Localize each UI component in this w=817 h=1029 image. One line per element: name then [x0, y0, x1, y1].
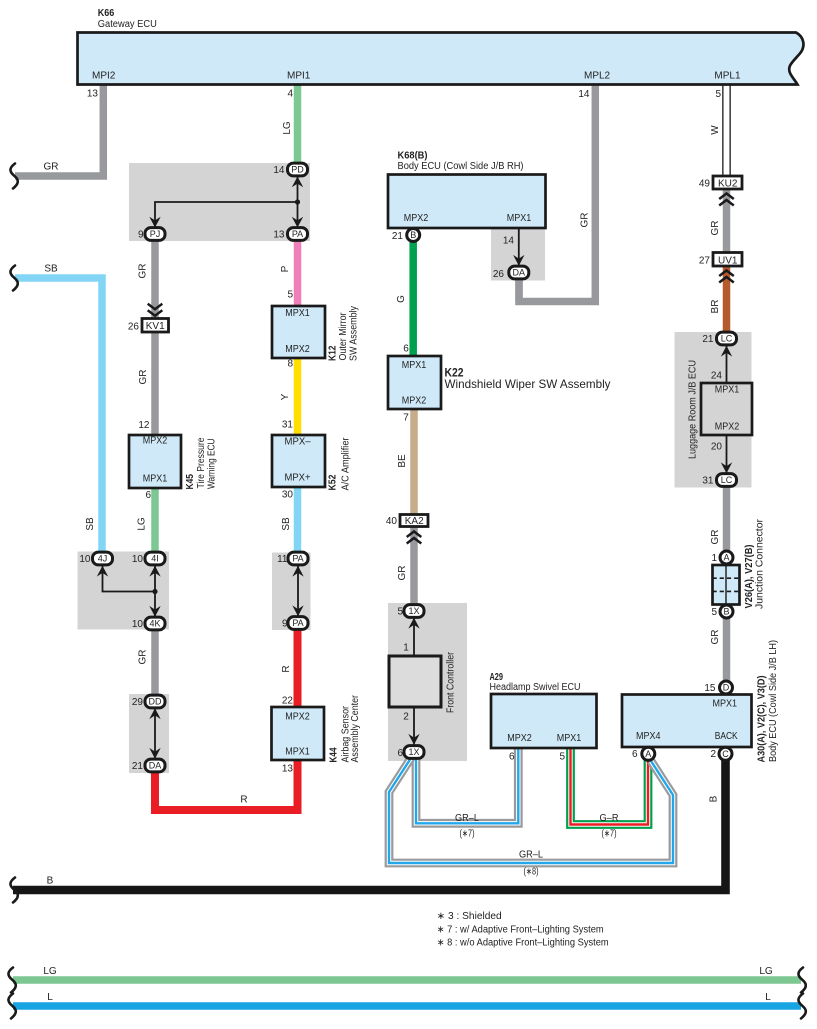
- svg-text:2: 2: [403, 712, 409, 723]
- svg-text:31: 31: [702, 476, 714, 487]
- svg-text:KV1: KV1: [146, 321, 165, 332]
- svg-text:20: 20: [711, 442, 723, 453]
- svg-text:(∗7): (∗7): [460, 829, 475, 840]
- ECU K44 Airbag Sensor Assembly Center box: [272, 707, 325, 760]
- svg-text:11: 11: [277, 554, 288, 565]
- bottom wire LG full width: [13, 976, 801, 984]
- svg-text:∗ 3 : Shielded: ∗ 3 : Shielded: [437, 911, 502, 922]
- svg-text:GR: GR: [44, 162, 59, 173]
- oval connector 26 DA: [509, 266, 529, 279]
- svg-text:A/C Amplifier: A/C Amplifier: [341, 437, 352, 491]
- svg-text:40: 40: [386, 516, 398, 527]
- svg-text:1X: 1X: [408, 606, 419, 616]
- wire P from PA to K12 pin5: [294, 240, 302, 307]
- circle connector 15 D: [720, 681, 733, 694]
- connector box UV1: [713, 253, 742, 267]
- break squiggle SB left: [10, 266, 17, 291]
- oval connector 14 PD: [288, 163, 308, 176]
- svg-text:UV1: UV1: [718, 255, 738, 266]
- wire GR 31LC to A circle: [723, 486, 731, 552]
- svg-text:B: B: [723, 607, 729, 617]
- svg-text:R: R: [240, 795, 247, 806]
- oval connector 13 PA: [288, 228, 308, 241]
- junction dot at 4I link: [152, 589, 157, 594]
- svg-text:∗ 7 : w/ Adaptive Front–Lighti: ∗ 7 : w/ Adaptive Front–Lighting System: [437, 924, 604, 935]
- ECU A29 Headlamp Swivel ECU box: [491, 694, 597, 748]
- chevrons below UV1: [719, 271, 734, 283]
- circle connector 1 A: [720, 551, 733, 564]
- svg-text:21: 21: [702, 334, 714, 345]
- arrow down into DA: [149, 748, 160, 759]
- svg-text:C: C: [722, 749, 729, 759]
- svg-text:G: G: [396, 295, 407, 303]
- wire B from C circle down and across bottom to break: [13, 759, 726, 890]
- junction connector V26(A) V27(B) box with grid: [713, 565, 740, 605]
- svg-text:DD: DD: [149, 697, 162, 707]
- wire Y K12 pin8 to K52 pin31: [294, 357, 302, 436]
- wire GR from K66 pin13 to break: [15, 84, 103, 176]
- connector box KV1: [142, 319, 169, 333]
- wire GR KA2 to 1X: [410, 526, 418, 605]
- svg-text:B: B: [410, 230, 416, 240]
- arrow up into 11PA: [292, 566, 303, 577]
- svg-text:10: 10: [132, 619, 144, 630]
- svg-text:MPX1: MPX1: [557, 733, 582, 744]
- break squiggle LG right: [798, 968, 805, 993]
- svg-text:A30(A), V2(C), V3(D): A30(A), V2(C), V3(D): [757, 676, 768, 763]
- ECU A30 Body ECU (Cowl Side J/B LH) box: [622, 695, 752, 748]
- cable GR-L (*8) from 1X to A circle along bottom: [389, 758, 673, 863]
- oval connector 21 DA: [145, 759, 165, 772]
- oval connector 5 1X: [404, 605, 424, 618]
- svg-text:13: 13: [273, 230, 285, 241]
- link line 4J/4I to 4K with junction: [103, 566, 156, 617]
- arrow up into DD: [149, 708, 160, 719]
- svg-text:MPX1: MPX1: [715, 385, 740, 396]
- svg-text:Junction Connector: Junction Connector: [755, 518, 766, 609]
- svg-text:6: 6: [509, 752, 515, 763]
- svg-text:V26(A), V27(B): V26(A), V27(B): [744, 545, 755, 609]
- wire W from K66 MPL1 pin5 to KU2 (white with outline): [722, 84, 731, 177]
- svg-text:4: 4: [287, 89, 293, 100]
- shade box Front Controller: [388, 603, 467, 761]
- svg-text:5: 5: [715, 89, 721, 100]
- svg-text:4K: 4K: [149, 619, 160, 629]
- svg-text:A: A: [645, 749, 651, 759]
- svg-text:MPX2: MPX2: [715, 422, 740, 433]
- connector box KA2: [400, 515, 428, 527]
- svg-text:PA: PA: [292, 554, 303, 564]
- svg-text:SB: SB: [281, 517, 292, 531]
- wire R from DA to K44 pin13: [155, 759, 298, 810]
- svg-text:7: 7: [403, 413, 409, 424]
- arrow down into 31LC: [721, 462, 732, 473]
- svg-text:1X: 1X: [408, 747, 419, 757]
- svg-text:5: 5: [287, 290, 293, 301]
- wire BR UV1 chevron to 21LC: [723, 265, 731, 334]
- oval connector 11 PA: [288, 552, 308, 565]
- svg-text:1: 1: [711, 553, 717, 564]
- svg-text:13: 13: [282, 764, 294, 775]
- svg-text:15: 15: [704, 683, 716, 694]
- link line 5-1X to Front Controller pin1: [413, 618, 415, 656]
- svg-text:B: B: [47, 876, 54, 887]
- svg-text:24: 24: [711, 371, 723, 382]
- SW K12 Outer Mirror SW Assembly box: [272, 306, 325, 358]
- arrow down into 6-1X: [408, 734, 419, 745]
- break squiggle LG left: [8, 968, 15, 993]
- oval connector 10 4K: [145, 617, 165, 630]
- svg-text:31: 31: [282, 420, 294, 431]
- svg-text:9: 9: [282, 619, 288, 630]
- chevrons below KA2: [407, 532, 422, 544]
- connector shade box PD/PJ/PA: [129, 163, 310, 241]
- wire LG from K66 pin4 to PD: [294, 84, 302, 165]
- svg-text:KA2: KA2: [405, 516, 424, 527]
- svg-text:K68(B): K68(B): [398, 150, 428, 161]
- circle connector 6 A: [642, 747, 655, 760]
- svg-text:MPX2: MPX2: [143, 436, 168, 447]
- svg-text:Gateway ECU: Gateway ECU: [98, 19, 157, 30]
- svg-text:GR: GR: [397, 566, 408, 581]
- break squiggle L right: [798, 994, 805, 1019]
- svg-text:GR: GR: [710, 530, 721, 545]
- svg-text:MPX2: MPX2: [285, 712, 310, 723]
- arrow down into PJ: [149, 217, 160, 228]
- svg-text:MPX1: MPX1: [507, 213, 532, 224]
- svg-text:L: L: [765, 992, 771, 1003]
- svg-text:GR: GR: [138, 650, 149, 665]
- svg-text:14: 14: [503, 235, 515, 246]
- svg-text:DA: DA: [149, 761, 162, 771]
- junction dot at PD link: [295, 199, 300, 204]
- svg-text:R: R: [281, 665, 292, 672]
- oval connector 6 1X: [404, 746, 424, 759]
- svg-text:A: A: [723, 553, 729, 563]
- svg-text:GR: GR: [580, 213, 591, 228]
- svg-text:49: 49: [699, 178, 711, 189]
- arrow down into PA: [292, 217, 303, 228]
- svg-text:Headlamp Swivel ECU: Headlamp Swivel ECU: [490, 682, 581, 693]
- svg-text:LC: LC: [721, 475, 733, 485]
- wire LG K45 pin6 to 4I: [151, 487, 159, 553]
- svg-text:LG: LG: [759, 966, 773, 977]
- svg-text:Outer Mirror: Outer Mirror: [338, 312, 349, 361]
- oval connector 9 PJ: [145, 228, 165, 241]
- svg-text:Y: Y: [280, 393, 291, 400]
- svg-text:SB: SB: [44, 264, 58, 275]
- svg-text:Luggage Room J/B ECU: Luggage Room J/B ECU: [688, 360, 699, 459]
- svg-text:GR: GR: [138, 264, 149, 279]
- chevrons above KV1: [148, 304, 163, 316]
- svg-text:LC: LC: [721, 334, 733, 344]
- svg-text:GR–L: GR–L: [519, 850, 543, 861]
- link line DD to DA: [154, 708, 156, 759]
- svg-text:LG: LG: [43, 966, 57, 977]
- svg-text:GR: GR: [138, 370, 149, 385]
- oval connector 29 DD: [145, 695, 165, 708]
- svg-text:10: 10: [79, 554, 91, 565]
- svg-text:PA: PA: [292, 229, 303, 239]
- oval connector 21 LC: [717, 332, 737, 345]
- oval connector 10 4I: [145, 552, 165, 565]
- ECU K66 Gateway ECU box with torn right edge: [78, 33, 804, 85]
- svg-text:6: 6: [632, 749, 638, 760]
- svg-text:MPX1: MPX1: [285, 747, 310, 758]
- break squiggle GR left: [10, 164, 17, 189]
- svg-text:5: 5: [711, 607, 717, 618]
- svg-text:MPX4: MPX4: [636, 731, 661, 742]
- svg-text:PD: PD: [291, 165, 304, 175]
- connector shade box DD/DA: [129, 694, 169, 773]
- svg-text:KU2: KU2: [718, 178, 738, 189]
- svg-text:B: B: [709, 795, 720, 802]
- svg-text:MPX2: MPX2: [507, 733, 532, 744]
- svg-text:Front Controller: Front Controller: [446, 651, 457, 713]
- svg-text:10: 10: [132, 554, 144, 565]
- svg-text:MPX1: MPX1: [713, 699, 738, 710]
- svg-text:5: 5: [397, 607, 403, 618]
- luggage room inner box MPX1/MPX2: [701, 383, 752, 435]
- svg-text:26: 26: [493, 269, 505, 280]
- wire R 9PA to K44 pin22: [294, 629, 302, 708]
- svg-text:BE: BE: [397, 454, 408, 468]
- oval connector 10 4J: [93, 552, 113, 565]
- svg-text:∗ 8 : w/o Adaptive Front–Light: ∗ 8 : w/o Adaptive Front–Lighting System: [437, 938, 609, 949]
- connector shade box 11PA/9PA: [272, 553, 311, 631]
- svg-text:D: D: [723, 683, 730, 693]
- svg-text:2: 2: [710, 749, 716, 760]
- circle connector 2 C: [719, 747, 732, 760]
- svg-text:MPL2: MPL2: [584, 71, 611, 82]
- svg-text:K66: K66: [98, 8, 115, 19]
- wire GR PJ to KV1: [151, 240, 159, 320]
- cable GR-L (*7) from 1X to A29 MPX2 pin6: [416, 749, 518, 823]
- svg-text:MPL1: MPL1: [714, 71, 741, 82]
- svg-text:4I: 4I: [151, 554, 159, 564]
- chevrons below KU2: [719, 194, 734, 206]
- svg-text:1: 1: [403, 643, 409, 654]
- svg-text:29: 29: [132, 697, 144, 708]
- arrow up into 21LC: [721, 346, 732, 357]
- wire GR 4K to DD: [151, 630, 159, 696]
- svg-text:BACK: BACK: [715, 731, 738, 742]
- svg-text:K45: K45: [185, 474, 196, 490]
- svg-text:LG: LG: [282, 121, 293, 135]
- ECU K68 Body ECU (Cowl Side J/B RH) box: [388, 175, 546, 229]
- svg-text:SW Assembly: SW Assembly: [349, 306, 360, 361]
- pin line K68 MPX1 pin14 to 26DA: [518, 228, 520, 266]
- svg-text:MPX1: MPX1: [143, 474, 168, 485]
- connector shade box 4J/4I/4K: [78, 552, 170, 630]
- svg-text:6: 6: [397, 748, 403, 759]
- svg-text:MPX1: MPX1: [285, 308, 310, 319]
- wire SB K52 pin30 to 11PA: [294, 486, 302, 553]
- svg-text:(∗8): (∗8): [524, 867, 539, 878]
- svg-text:LG: LG: [137, 517, 148, 531]
- break squiggle B left: [10, 878, 17, 903]
- svg-text:14: 14: [578, 89, 590, 100]
- wire SB from break to 4J: [15, 278, 102, 553]
- oval connector 9 PA: [288, 617, 308, 630]
- oval connector 31 LC: [717, 474, 737, 487]
- svg-text:K44: K44: [329, 747, 340, 762]
- svg-text:Body ECU (Cowl Side J/B RH): Body ECU (Cowl Side J/B RH): [398, 161, 524, 172]
- arrow up into 5-1X: [408, 618, 419, 629]
- link line PD to PJ and PA with junction: [155, 177, 298, 228]
- svg-text:PA: PA: [292, 618, 303, 628]
- svg-text:Warning ECU: Warning ECU: [207, 439, 218, 490]
- svg-text:Assembly Center: Assembly Center: [350, 694, 361, 762]
- arrow up into 4I: [149, 566, 160, 577]
- svg-text:BR: BR: [710, 300, 721, 314]
- svg-text:L: L: [47, 992, 53, 1003]
- SW K22 Windshield Wiper SW Assembly box: [388, 356, 441, 409]
- svg-text:MPX–: MPX–: [285, 437, 311, 448]
- wire GR B circle to D circle: [723, 617, 731, 682]
- ECU K52 A/C Amplifier box: [272, 435, 325, 487]
- Front Controller inner white box: [389, 656, 441, 707]
- svg-text:W: W: [710, 125, 721, 135]
- wire G from K68 B to K22 pin6: [409, 240, 417, 357]
- svg-text:26: 26: [128, 321, 140, 332]
- svg-text:21: 21: [132, 761, 144, 772]
- svg-text:21: 21: [392, 231, 404, 242]
- cable G-R (*7) from A29 MPX1 pin5 to A circle: [571, 749, 649, 825]
- svg-text:MPX2: MPX2: [285, 344, 310, 355]
- svg-text:(∗7): (∗7): [602, 829, 617, 840]
- circle connector 5 B: [720, 605, 733, 618]
- svg-text:MPX2: MPX2: [402, 396, 427, 407]
- svg-text:4J: 4J: [98, 554, 108, 564]
- arrow down into 9PA: [292, 605, 303, 616]
- circle connector 21 B: [407, 229, 420, 242]
- arrow down into 4K: [149, 606, 160, 617]
- svg-text:9: 9: [138, 230, 144, 241]
- break squiggle L left: [8, 994, 15, 1019]
- link line Front Controller pin2 to 6-1X: [413, 707, 415, 745]
- link line 21LC to luggage MPX1 pin24: [726, 346, 728, 383]
- svg-text:27: 27: [699, 255, 711, 266]
- arrow up into 4J: [97, 566, 108, 577]
- svg-text:Tire Pressure: Tire Pressure: [196, 437, 207, 488]
- svg-text:22: 22: [282, 696, 294, 707]
- shade box Luggage Room J/B ECU: [675, 332, 752, 488]
- svg-text:MPX1: MPX1: [402, 360, 427, 371]
- svg-text:DA: DA: [513, 268, 526, 278]
- svg-text:G–R: G–R: [600, 813, 619, 824]
- ECU K45 Tire Pressure Warning ECU box: [129, 435, 181, 488]
- wire GR KV1 to K45 pin12: [151, 332, 159, 437]
- svg-text:6: 6: [403, 344, 409, 355]
- svg-text:12: 12: [138, 420, 150, 431]
- svg-text:GR: GR: [710, 221, 721, 236]
- wire GR from K66 MPL2 pin14 to DA: [519, 84, 595, 302]
- svg-text:8: 8: [287, 359, 293, 370]
- svg-text:MPI2: MPI2: [92, 71, 116, 82]
- svg-text:K52: K52: [328, 474, 339, 490]
- connector shade box 26DA under K68: [491, 228, 545, 281]
- wire BE K22 pin7 to KA2: [410, 408, 418, 515]
- svg-text:14: 14: [273, 165, 285, 176]
- svg-text:PJ: PJ: [150, 229, 161, 239]
- svg-text:MPX2: MPX2: [404, 213, 429, 224]
- link line luggage MPX2 pin20 to 31LC: [726, 435, 728, 474]
- svg-text:MPX+: MPX+: [285, 473, 311, 484]
- svg-text:GR: GR: [710, 630, 721, 645]
- svg-text:Windshield Wiper SW Assembly: Windshield Wiper SW Assembly: [445, 377, 611, 391]
- svg-text:6: 6: [145, 490, 151, 501]
- bottom wire L full width: [13, 1002, 801, 1010]
- svg-text:Body ECU (Cowl Side J/B LH): Body ECU (Cowl Side J/B LH): [768, 640, 779, 762]
- arrow down into 26DA: [513, 255, 524, 266]
- svg-text:K12: K12: [328, 345, 339, 361]
- wire GR KU2 chevron to UV1: [723, 188, 731, 253]
- svg-text:13: 13: [87, 89, 99, 100]
- wire GR under DA (K68) corner piece: [515, 276, 523, 302]
- connector box KU2: [713, 176, 742, 189]
- svg-text:P: P: [280, 265, 291, 272]
- svg-text:SB: SB: [85, 517, 96, 531]
- svg-text:5: 5: [559, 752, 565, 763]
- link line 11PA to 9PA: [297, 566, 299, 617]
- svg-text:MPI1: MPI1: [287, 71, 311, 82]
- svg-text:GR–L: GR–L: [455, 813, 479, 824]
- arrow up into PD: [292, 177, 303, 188]
- svg-text:30: 30: [282, 490, 294, 501]
